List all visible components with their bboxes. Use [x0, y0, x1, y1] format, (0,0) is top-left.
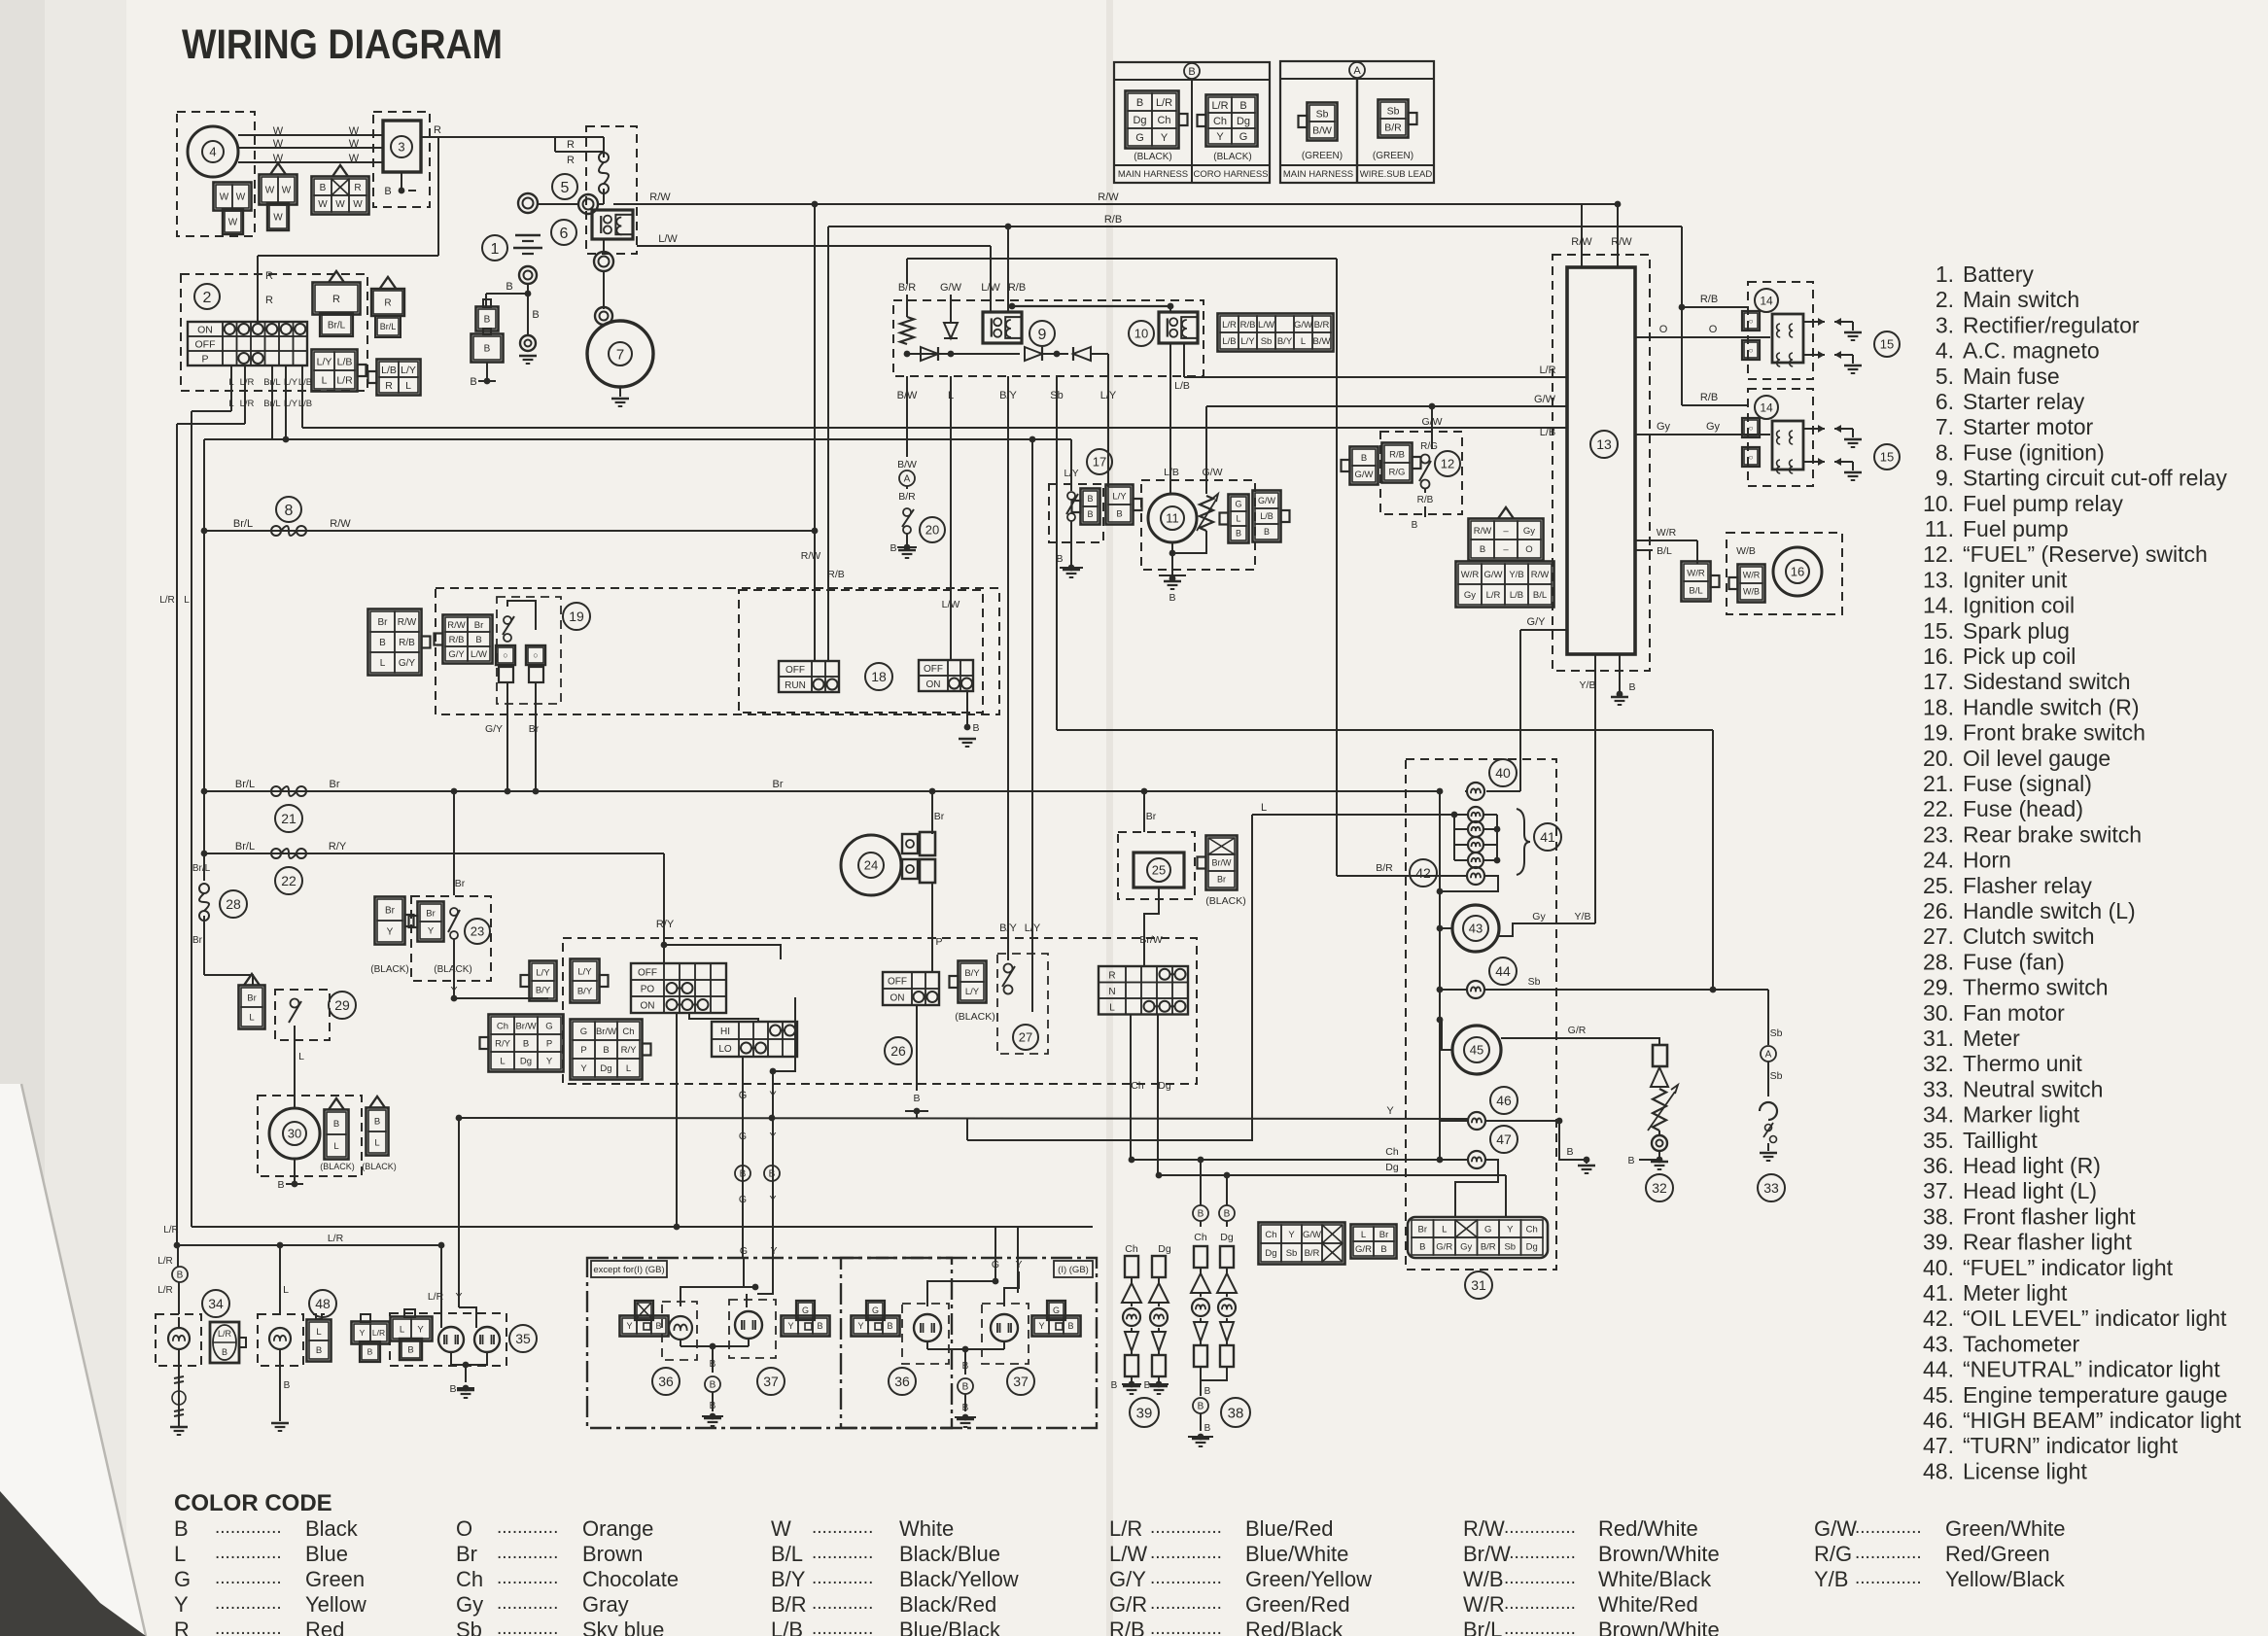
- svg-text:Sb: Sb: [1316, 108, 1329, 120]
- svg-text:W: W: [236, 192, 246, 203]
- svg-text:G/Y: G/Y: [399, 658, 416, 669]
- svg-text:B: B: [1239, 100, 1246, 112]
- svg-text:B: B: [710, 1359, 716, 1370]
- main fuse element: [599, 153, 609, 162]
- parking feed from handle L: [676, 1014, 678, 1227]
- meter rail vertical: [1439, 791, 1441, 1160]
- svg-text:.............: .............: [1855, 1517, 1922, 1538]
- battery right lead to ground: [527, 294, 529, 335]
- svg-text:B: B: [817, 1321, 822, 1331]
- taillight number 35: [509, 1325, 537, 1352]
- svg-text:............: ............: [812, 1593, 873, 1614]
- svg-text:31.: 31.: [1923, 1026, 1954, 1051]
- taillight B ground: [451, 1353, 487, 1365]
- svg-text:Br: Br: [455, 878, 466, 889]
- starter relay lower terminal: [603, 240, 605, 254]
- handle L G out: [742, 1057, 744, 1258]
- svg-text:Handle switch (L): Handle switch (L): [1963, 898, 2136, 923]
- sidestand connector L/Y B: [1106, 485, 1134, 525]
- fan connector B L 2: [366, 1108, 389, 1156]
- svg-text:White/Red: White/Red: [1598, 1592, 1698, 1617]
- marker ground: [170, 1426, 188, 1428]
- svg-text:Igniter unit: Igniter unit: [1963, 567, 2068, 592]
- headlight left box border: [587, 1258, 952, 1428]
- svg-text:B: B: [506, 281, 512, 293]
- svg-text:L/B: L/B: [771, 1618, 803, 1636]
- R/W bus junction: [812, 201, 819, 208]
- neutral switch contacts: [1765, 1125, 1772, 1131]
- svg-text:Sb: Sb: [456, 1618, 482, 1636]
- svg-text:43: 43: [1469, 922, 1483, 936]
- svg-text:Sb: Sb: [1528, 976, 1541, 988]
- main switch connector R/BrL large: [313, 283, 361, 315]
- svg-text:Sb: Sb: [1770, 1027, 1783, 1039]
- svg-text:L: L: [333, 1141, 338, 1152]
- svg-text:R: R: [1108, 970, 1115, 981]
- right 36 connector G Y B: [852, 1316, 900, 1337]
- battery negative lead: [527, 284, 529, 294]
- svg-text:B: B: [320, 183, 327, 193]
- svg-text:G: G: [1484, 1224, 1491, 1235]
- svg-text:L: L: [316, 1327, 321, 1338]
- svg-text:L/Y: L/Y: [401, 365, 416, 376]
- svg-text:8.: 8.: [1936, 439, 1954, 465]
- svg-text:Y: Y: [787, 1321, 793, 1331]
- svg-text:Br: Br: [934, 811, 945, 822]
- svg-text:Br/L: Br/L: [235, 841, 255, 853]
- svg-text:L/R: L/R: [328, 1233, 344, 1244]
- main switch dashed box: [181, 274, 367, 391]
- A.C. magneto dashed box: [177, 112, 255, 236]
- svg-text:Brown/White: Brown/White: [1598, 1542, 1720, 1566]
- tach Gy-Y/B wire: [1499, 923, 1595, 936]
- svg-text:L/R: L/R: [1109, 1516, 1142, 1541]
- svg-text:.............: .............: [215, 1543, 282, 1563]
- svg-text:B: B: [222, 1347, 227, 1357]
- underlying page corner (white wedge): [0, 1084, 146, 1636]
- svg-text:R/W: R/W: [1474, 526, 1492, 537]
- oil gauge number 20: [920, 517, 945, 542]
- clutch drop from bus: [1029, 436, 1036, 443]
- svg-text:15: 15: [1880, 337, 1894, 352]
- R/B riser to ignition coils: [1681, 226, 1683, 405]
- svg-text:W: W: [335, 199, 345, 210]
- svg-text:R: R: [265, 270, 273, 282]
- svg-text:A: A: [1353, 65, 1361, 77]
- wire R from rectifier: [421, 136, 555, 138]
- svg-text:22.: 22.: [1923, 796, 1954, 821]
- svg-text:(GREEN): (GREEN): [1373, 151, 1413, 161]
- svg-text:..............: ..............: [1150, 1517, 1222, 1538]
- sidestand switch symbol: [1067, 492, 1075, 500]
- svg-text:Y: Y: [428, 925, 435, 936]
- meter lamp rail right: [1496, 815, 1498, 860]
- svg-text:41.: 41.: [1923, 1280, 1954, 1305]
- I GB label box: [1054, 1261, 1093, 1277]
- svg-text:B/Y: B/Y: [964, 968, 980, 979]
- svg-text:..............: ..............: [1504, 1543, 1576, 1563]
- flasher Br drop: [1143, 791, 1145, 832]
- svg-text:RUN: RUN: [785, 680, 806, 691]
- R/B bus junction: [1005, 224, 1012, 230]
- left 37 connector G Y B: [782, 1316, 830, 1337]
- front brake inner dashed box: [497, 597, 561, 704]
- svg-text:Sky blue: Sky blue: [582, 1618, 664, 1636]
- main switch connector L/Y L/B L L/R: [312, 350, 358, 392]
- svg-text:21: 21: [281, 811, 297, 826]
- svg-text:20.: 20.: [1923, 746, 1954, 771]
- TURN bulb 47: [1468, 1151, 1485, 1168]
- igniter coupler RW-Gy/B-O: [1469, 519, 1544, 561]
- fuel pump number 11: [1161, 506, 1184, 530]
- svg-text:G/W: G/W: [1203, 467, 1223, 478]
- handle L grid drop: [663, 945, 665, 963]
- HIGH BEAM number 46: [1490, 1087, 1518, 1114]
- svg-text:B/L: B/L: [1533, 590, 1547, 601]
- svg-text:L/Y: L/Y: [536, 967, 550, 978]
- L/B drop to fuel pump: [1169, 343, 1171, 494]
- svg-text:48: 48: [315, 1296, 331, 1311]
- igniter Gy exit: [1635, 434, 1770, 435]
- rear flasher chain Ch: [1125, 1256, 1138, 1277]
- main switch connector L/B L/Y R L: [377, 360, 421, 396]
- rear brake connector2 Br Y: [418, 902, 444, 942]
- right bulb 36: [914, 1314, 941, 1341]
- svg-text:Dg: Dg: [520, 1056, 532, 1066]
- svg-text:G: G: [545, 1021, 552, 1031]
- license ground: [271, 1422, 289, 1424]
- svg-text:Br/L: Br/L: [328, 321, 346, 331]
- svg-text:Y: Y: [769, 1131, 776, 1142]
- svg-text:(BLACK): (BLACK): [1205, 895, 1245, 907]
- svg-text:B: B: [887, 1321, 892, 1331]
- right bulb36 dashed box: [902, 1304, 949, 1364]
- svg-text:L: L: [374, 1137, 379, 1148]
- svg-text:R: R: [567, 155, 575, 166]
- svg-text:L: L: [1261, 802, 1267, 814]
- rear brake Y output: [453, 939, 455, 998]
- oil gauge connector A: [899, 470, 915, 486]
- svg-text:29.: 29.: [1923, 975, 1954, 1000]
- svg-text:Spark plug: Spark plug: [1963, 618, 2070, 644]
- svg-text:L: L: [322, 374, 328, 386]
- svg-text:..............: ..............: [1150, 1568, 1222, 1588]
- R/W drop to igniter left: [1581, 204, 1583, 267]
- right headlight Y feed: [1017, 1227, 1019, 1293]
- svg-text:B: B: [1198, 1209, 1204, 1220]
- battery top terminal: [518, 193, 538, 213]
- svg-text:Taillight: Taillight: [1963, 1128, 2038, 1153]
- fuse 28 number: [220, 890, 247, 918]
- svg-text:Green/Yellow: Green/Yellow: [1245, 1567, 1372, 1591]
- svg-text:G: G: [739, 1194, 747, 1205]
- svg-text:G: G: [872, 1305, 879, 1315]
- svg-text:18: 18: [871, 669, 887, 684]
- svg-text:G/Y: G/Y: [1527, 616, 1547, 628]
- battery lead ground B: [486, 363, 488, 381]
- svg-text:Ch: Ch: [1213, 116, 1227, 127]
- svg-text:Fuse (fan): Fuse (fan): [1963, 949, 2065, 974]
- svg-text:12: 12: [1441, 457, 1454, 471]
- svg-text:Br: Br: [474, 620, 484, 631]
- svg-text:G/W: G/W: [1294, 320, 1312, 331]
- front flasher chain Ch: [1194, 1246, 1207, 1268]
- handle switch R number 18: [865, 663, 892, 690]
- svg-text:Black/Red: Black/Red: [899, 1592, 996, 1617]
- svg-text:W: W: [771, 1516, 791, 1541]
- svg-text:Thermo switch: Thermo switch: [1963, 975, 2109, 1000]
- svg-text:L/R: L/R: [1539, 365, 1555, 376]
- fan connector B L: [325, 1110, 349, 1160]
- svg-text:○: ○: [503, 650, 507, 660]
- svg-text:O: O: [456, 1516, 472, 1541]
- cutoff relay box: [983, 312, 1022, 343]
- svg-text:.............: .............: [215, 1517, 282, 1538]
- svg-text:G: G: [992, 1259, 999, 1271]
- handle L connector 9pin left: [489, 1015, 564, 1072]
- svg-text:Front flasher light: Front flasher light: [1963, 1203, 2136, 1229]
- except for label box: [591, 1261, 667, 1277]
- svg-text:............: ............: [812, 1619, 873, 1636]
- L/W drop into relay 9: [990, 246, 992, 312]
- svg-text:Red/Green: Red/Green: [1945, 1542, 2050, 1566]
- pickup coil dashed box: [1727, 533, 1842, 614]
- svg-text:17.: 17.: [1923, 669, 1954, 694]
- left headlight36 connector X Y B: [620, 1316, 669, 1337]
- svg-text:B: B: [890, 542, 896, 554]
- svg-text:B: B: [1116, 508, 1122, 519]
- A.C. magneto circle: [188, 126, 238, 177]
- svg-text:G: G: [1053, 1305, 1060, 1315]
- fuel pump ground: [1171, 542, 1173, 578]
- svg-text:B/W: B/W: [1312, 124, 1332, 136]
- svg-text:W: W: [228, 218, 238, 228]
- svg-text:Y: Y: [769, 1090, 777, 1101]
- svg-text:48.: 48.: [1923, 1458, 1954, 1483]
- svg-text:B: B: [407, 1344, 413, 1355]
- svg-text:38: 38: [1228, 1405, 1244, 1421]
- svg-text:B: B: [449, 1383, 456, 1395]
- svg-text:A.C. magneto: A.C. magneto: [1963, 338, 2100, 364]
- battery number 1: [482, 235, 507, 261]
- HIGH BEAM bulb 46: [1468, 1112, 1485, 1130]
- svg-text:L/B: L/B: [1174, 380, 1190, 392]
- svg-text:Meter light: Meter light: [1963, 1280, 2068, 1305]
- svg-text:Br: Br: [247, 992, 257, 1003]
- igniter B bottom exit: [1619, 654, 1621, 694]
- svg-text:L/Y: L/Y: [1025, 922, 1041, 934]
- svg-text:Sb: Sb: [1261, 336, 1273, 347]
- svg-text:Meter: Meter: [1963, 1026, 2020, 1051]
- temp gauge left lead: [1440, 1020, 1452, 1050]
- svg-text:25.: 25.: [1923, 873, 1954, 898]
- meter dashed box: [1406, 759, 1556, 1270]
- svg-text:..............: ..............: [1150, 1619, 1222, 1636]
- svg-text:Ch: Ch: [497, 1021, 508, 1031]
- svg-text:Br: Br: [330, 779, 340, 790]
- svg-text:Orange: Orange: [582, 1516, 653, 1541]
- svg-text:Br: Br: [456, 1542, 477, 1566]
- svg-text:(BLACK): (BLACK): [362, 1162, 397, 1171]
- svg-text:O: O: [1659, 324, 1668, 335]
- svg-text:B: B: [962, 1382, 969, 1393]
- handle L HI/LO grid: [712, 1022, 797, 1057]
- svg-text:Yellow: Yellow: [305, 1592, 366, 1617]
- svg-text:L: L: [228, 377, 233, 388]
- svg-text:B/W: B/W: [897, 459, 917, 470]
- R/W vertical to handle switch R: [814, 204, 816, 661]
- svg-text:B: B: [470, 376, 476, 388]
- svg-text:31: 31: [1471, 1277, 1486, 1293]
- reserve connector R/B R/G: [1382, 443, 1413, 483]
- fuel pump relay box: [1159, 312, 1198, 343]
- svg-text:47.: 47.: [1923, 1433, 1954, 1458]
- rear brake switch symbol: [450, 908, 458, 916]
- svg-text:OFF: OFF: [195, 339, 216, 351]
- svg-text:R/W: R/W: [1531, 570, 1550, 580]
- main switch output stubs: [230, 365, 232, 410]
- battery plates: [515, 234, 541, 237]
- svg-text:Gy: Gy: [1532, 911, 1546, 922]
- svg-text:“TURN” indicator light: “TURN” indicator light: [1963, 1433, 2179, 1458]
- svg-text:Br: Br: [1379, 1230, 1389, 1240]
- svg-text:L/R: L/R: [336, 374, 353, 386]
- svg-text:Blue: Blue: [305, 1542, 348, 1566]
- svg-text:36.: 36.: [1923, 1153, 1954, 1178]
- clutch switch symbol: [1004, 964, 1013, 973]
- svg-text:Br/W: Br/W: [1212, 858, 1233, 868]
- svg-text:Br: Br: [773, 779, 784, 790]
- svg-text:21.: 21.: [1923, 771, 1954, 796]
- fuse 21 wire Br bus: [204, 790, 1440, 792]
- svg-text:G: G: [739, 1131, 747, 1142]
- temp gauge number 45: [1464, 1037, 1489, 1062]
- svg-text:OFF: OFF: [638, 968, 657, 979]
- svg-text:B: B: [913, 1093, 920, 1104]
- rectifier/regulator dashed box: [373, 112, 430, 207]
- left bulb 36: [669, 1316, 692, 1340]
- svg-text:Gy: Gy: [1657, 421, 1671, 433]
- spark plug 15 upper number: [1874, 331, 1900, 357]
- svg-text:B: B: [1628, 681, 1635, 693]
- svg-text:W/R: W/R: [1687, 568, 1705, 578]
- svg-text:16.: 16.: [1923, 644, 1954, 669]
- fuse 8 number: [276, 497, 301, 522]
- handle L number 26: [885, 1037, 912, 1064]
- right bulb37 dashed box: [982, 1304, 1029, 1364]
- svg-text:ON: ON: [197, 325, 213, 336]
- magneto connector W W / W: [214, 183, 252, 211]
- svg-text:Dg: Dg: [1133, 115, 1146, 126]
- svg-text:B/L: B/L: [771, 1542, 803, 1566]
- svg-text:○: ○: [1749, 317, 1754, 326]
- svg-text:R: R: [384, 298, 391, 309]
- svg-text:.............: .............: [1855, 1568, 1922, 1588]
- svg-text:W/B: W/B: [1463, 1567, 1504, 1591]
- turn switch outputs: [1130, 1015, 1132, 1160]
- svg-text:L: L: [174, 1542, 186, 1566]
- svg-text:B: B: [655, 1321, 661, 1331]
- svg-text:Flasher relay: Flasher relay: [1963, 873, 2092, 898]
- thermo number 29: [329, 992, 356, 1019]
- svg-text:L/R: L/R: [157, 1256, 173, 1267]
- horn Br drop: [931, 791, 933, 834]
- svg-text:B/Y: B/Y: [577, 986, 593, 996]
- svg-text:L: L: [1442, 1224, 1447, 1235]
- svg-text:Red: Red: [305, 1618, 344, 1636]
- svg-text:28: 28: [226, 896, 241, 912]
- FUEL indicator bulb 40: [1467, 783, 1484, 800]
- svg-text:B: B: [1419, 1241, 1425, 1252]
- svg-text:42: 42: [1415, 865, 1431, 881]
- svg-text:B/R: B/R: [1305, 1248, 1320, 1259]
- thermo unit body: [1653, 1045, 1667, 1066]
- battery lead connector B small: [476, 307, 499, 331]
- svg-text:White: White: [899, 1516, 954, 1541]
- svg-text:Y: Y: [1216, 131, 1224, 143]
- wire to starter motor: [603, 271, 605, 309]
- svg-text:R/B: R/B: [1700, 392, 1718, 403]
- relay9 R/B top junction: [1009, 303, 1016, 310]
- svg-text:“FUEL” (Reserve) switch: “FUEL” (Reserve) switch: [1963, 541, 2208, 567]
- svg-text:B: B: [1087, 509, 1093, 519]
- svg-text:Starter motor: Starter motor: [1963, 414, 2094, 439]
- svg-text:Br: Br: [1217, 875, 1226, 885]
- front brake dashed box outer: [436, 588, 999, 714]
- svg-text:L: L: [184, 595, 190, 606]
- svg-text:L/B: L/B: [1222, 336, 1236, 347]
- R/B bus wire: [828, 226, 1682, 227]
- fuel pump relay number 10: [1129, 321, 1154, 346]
- svg-text:R: R: [265, 295, 273, 306]
- svg-text:G/W: G/W: [1814, 1516, 1857, 1541]
- bulb40 to G/Y link: [1486, 790, 1520, 792]
- svg-text:Br/L: Br/L: [1463, 1618, 1502, 1636]
- svg-text:L: L: [228, 399, 233, 409]
- svg-text:R/Y: R/Y: [495, 1038, 511, 1049]
- R/W bus junction2: [1615, 201, 1622, 208]
- svg-text:Clutch switch: Clutch switch: [1963, 923, 2094, 949]
- svg-text:Battery: Battery: [1963, 261, 2034, 287]
- horn P output: [931, 883, 933, 968]
- svg-text:Main fuse: Main fuse: [1963, 364, 2060, 389]
- svg-text:34: 34: [208, 1296, 224, 1311]
- svg-text:L/Y: L/Y: [284, 399, 298, 409]
- svg-text:Fuse (head): Fuse (head): [1963, 796, 2083, 821]
- svg-text:L/R: L/R: [240, 377, 255, 388]
- svg-text:B: B: [174, 1516, 189, 1541]
- svg-text:R: R: [567, 139, 575, 151]
- svg-text:Handle switch (R): Handle switch (R): [1963, 694, 2140, 719]
- neutral connector A: [1761, 1046, 1776, 1062]
- svg-text:34.: 34.: [1923, 1102, 1954, 1128]
- svg-text:4: 4: [209, 145, 216, 159]
- svg-text:Br/W: Br/W: [1139, 934, 1162, 946]
- svg-text:Y/B: Y/B: [1575, 911, 1591, 922]
- G feed B ring: [735, 1166, 750, 1181]
- R/W bus wire: [613, 203, 1618, 205]
- svg-text:(I) (GB): (I) (GB): [1058, 1265, 1089, 1275]
- L/B bus to igniter: [302, 427, 1567, 429]
- fuel pump connector G L B: [1229, 495, 1249, 543]
- svg-text:G/Y: G/Y: [485, 723, 503, 735]
- fuel pump dashed box: [1141, 480, 1255, 570]
- svg-text:19.: 19.: [1923, 720, 1954, 746]
- svg-text:..............: ..............: [1150, 1543, 1222, 1563]
- G/W drop to reserve switch: [1431, 406, 1433, 449]
- svg-text:Rear brake switch: Rear brake switch: [1963, 821, 2142, 847]
- svg-text:40: 40: [1495, 765, 1511, 781]
